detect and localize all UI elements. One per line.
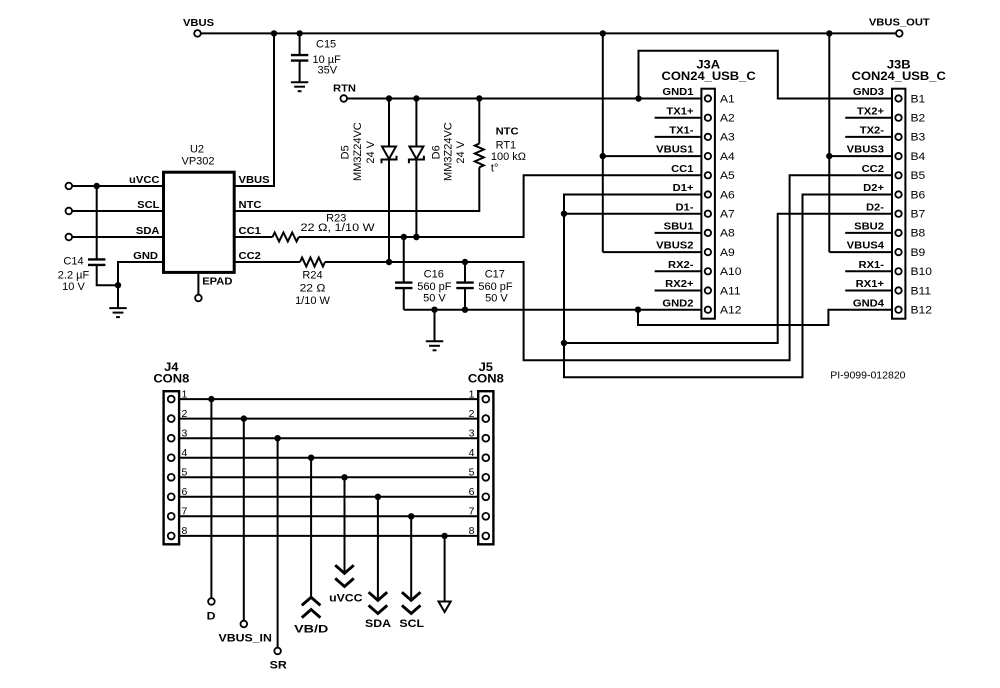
pin B1 [895,95,901,101]
wire EPAD [197,272,199,294]
pin B11 [895,287,901,293]
svg-text:NTC: NTC [239,200,262,211]
svg-text:D2-: D2- [866,202,885,213]
wire D1- to A7 [564,213,701,215]
svg-text:B1: B1 [911,94,926,105]
terminal uVCC input [66,183,73,190]
wire VBUS1 to A4 [603,155,702,157]
zener diode D6 [409,147,424,164]
junction RTN / GND1 link [635,95,641,101]
svg-text:B12: B12 [911,305,933,316]
wire VBUS3 to B4 [829,155,892,157]
pin J4-7 [168,513,175,520]
pin J4-1 [168,396,175,403]
connector J4 [164,391,180,544]
terminal SCL input [66,208,73,215]
junction top rail / VBUS3-4 [826,30,832,36]
wire U2 CC2 to R24 [234,261,300,263]
svg-text:A1: A1 [720,94,735,105]
pin J4-3 [168,435,175,442]
wire U2 GND to ground [118,262,164,308]
ground U2 [109,308,126,317]
wire tap SR [277,438,279,648]
svg-text:10 V: 10 V [62,281,85,293]
pin A10 [705,268,711,274]
junction row 4 tap [308,455,314,461]
wire R23 to J3A CC1/A5 [299,175,702,237]
junction GND2 / GND4 link [635,307,641,313]
svg-text:B7: B7 [911,209,926,220]
svg-text:A6: A6 [720,190,735,201]
junction row 1 tap [208,396,214,402]
wire tap D [210,399,212,598]
wire VBUS4 to B9 [829,251,892,253]
junction row 6 tap [375,494,381,500]
svg-text:TX1+: TX1+ [666,106,693,117]
svg-text:SDA: SDA [136,226,160,237]
svg-text:SDA: SDA [365,618,392,630]
svg-text:22 Ω, 1/10 W: 22 Ω, 1/10 W [300,221,375,234]
terminal D [208,598,215,605]
svg-text:RX1+: RX1+ [856,279,884,290]
pin B2 [895,115,901,121]
svg-text:560 pF: 560 pF [417,281,452,293]
wire stub B3 [845,136,892,138]
svg-text:A11: A11 [720,286,741,297]
svg-text:VBUS_OUT: VBUS_OUT [869,17,930,28]
svg-text:GND3: GND3 [853,87,884,98]
svg-text:35V: 35V [318,64,338,76]
off-page connector VB/D [302,597,321,617]
svg-text:CC1: CC1 [239,226,261,237]
pin A11 [705,287,711,293]
pin A3 [705,134,711,140]
junction row 7 tap [408,513,414,519]
off-page connector SCL [402,592,421,613]
svg-text:VBUS: VBUS [183,18,214,29]
pin A2 [705,115,711,121]
wire VBUS1/VBUS2 vertical [602,33,604,252]
wire VBUS2 to A9 [603,251,702,253]
pin B8 [895,230,901,236]
connector J3B [892,89,905,319]
wire U2 CC1 to R23 [234,236,272,238]
connector J5 [478,391,493,544]
pin J5-1 [482,396,489,403]
wire GND2 to GND4/B12 [638,310,892,325]
zener diode D5 [382,147,397,164]
junction RTN / RT1 [476,95,482,101]
ground C15 [291,82,308,91]
off-page connector SDA [369,592,388,613]
wire C14 top [96,186,98,259]
wire C14 bottom [97,265,118,285]
wire stub A2 [655,117,702,119]
svg-text:B3: B3 [911,132,926,143]
wire J4-J5 row 8 [179,535,478,537]
svg-text:uVCC: uVCC [329,592,363,604]
capacitor C14 [88,259,105,265]
svg-text:uVCC: uVCC [129,175,160,186]
svg-text:CC2: CC2 [239,251,261,262]
junction D1- [561,211,567,217]
wire J4-J5 row 2 [179,418,478,420]
wire VBUS rail [201,32,896,34]
wire stub B10 [845,270,892,272]
svg-text:A5: A5 [720,171,735,182]
svg-text:VBUS4: VBUS4 [847,240,884,251]
pin B4 [895,153,901,159]
wire J4-J5 row 5 [179,476,478,478]
svg-text:VBUS3: VBUS3 [847,144,884,155]
pin A12 [705,307,711,313]
wire J4-J5 row 6 [179,496,478,498]
wire tap VBUS_IN [243,419,245,621]
capacitor C15 [291,55,308,61]
wire GND1 to GND3/B1 [639,51,893,99]
wire VBUS3/VBUS4 vertical [828,33,830,252]
wire ground tap [434,310,436,342]
op-amp U2 VP302 [164,172,235,272]
junction top rail / C15 [296,30,302,36]
junction D6 / CC1 [413,234,419,240]
svg-text:TX1-: TX1- [669,125,694,136]
pin B5 [895,172,901,178]
off-page connector uVCC [335,565,354,586]
junction C17 bottom [462,307,468,313]
pin B12 [895,307,901,313]
svg-text:VB/D: VB/D [294,622,328,635]
junction CC2 / C17 [462,259,468,265]
svg-text:GND2: GND2 [662,298,693,309]
junction top rail / VBUS1-2 [600,30,606,36]
wire GND2 line (C16/C17 to A12) [404,309,702,311]
pin J5-5 [482,474,489,481]
wire C16 top [403,237,405,283]
junction CC1 / C16 [401,234,407,240]
pin A4 [705,153,711,159]
wire D1+ A6 to D2+ B6 [564,195,892,378]
wire tap uVCC [344,477,346,573]
terminal VBUS [194,30,201,37]
wire uVCC input [72,185,163,187]
svg-text:C15: C15 [316,39,336,51]
svg-text:SR: SR [270,659,288,671]
pin B3 [895,134,901,140]
svg-text:D6: D6 [430,145,442,159]
svg-text:MM3Z24VC: MM3Z24VC [352,122,364,181]
pin B9 [895,249,901,255]
wire C16 bottom [403,288,405,310]
junction row 2 tap [241,415,247,421]
wire stub B2 [845,117,892,119]
pin J5-7 [482,513,489,520]
wire RT1 top [478,99,480,144]
wire J4-J5 row 7 [179,515,478,517]
wire stub A8 [655,232,702,234]
junction VBUS3 [826,153,832,159]
svg-text:VBUS_IN: VBUS_IN [219,632,272,644]
pin J5-2 [482,415,489,422]
wire D net to D2-/B7 [564,214,892,343]
pin A1 [705,95,711,101]
pin J4-8 [168,533,175,540]
ground C16/C17 [426,341,443,350]
wire D6 anode [415,99,417,147]
wire J4-J5 row 1 [179,398,478,400]
wire tap SDA [377,497,379,601]
svg-text:CON8: CON8 [468,372,504,385]
terminal SDA input [66,234,73,241]
svg-text:B9: B9 [911,247,926,258]
pin J5-3 [482,435,489,442]
capacitor C17 [456,283,473,289]
junction row 3 tap [274,435,280,441]
svg-text:C16: C16 [424,268,444,280]
svg-text:EPAD: EPAD [202,276,233,287]
svg-text:B5: B5 [911,171,926,182]
svg-text:A10: A10 [720,267,742,278]
wire stub A3 [655,136,702,138]
pin B7 [895,211,901,217]
svg-text:PI-9099-012820: PI-9099-012820 [830,370,905,382]
junction row 5 tap [341,474,347,480]
junction RTN / D6 [413,95,419,101]
svg-text:C14: C14 [63,256,83,268]
junction D net [561,340,567,346]
svg-text:SBU1: SBU1 [664,221,694,232]
svg-text:D2+: D2+ [863,183,884,194]
svg-text:A7: A7 [720,209,735,220]
wire D6 cathode to CC1 [415,160,417,237]
svg-text:U2: U2 [190,144,204,156]
svg-text:B11: B11 [911,286,932,297]
svg-text:B6: B6 [911,190,926,201]
svg-text:TX2+: TX2+ [857,106,884,117]
wire tap row 8 ground arrow [444,536,446,602]
svg-text:MM3Z24VC: MM3Z24VC [443,122,455,181]
svg-text:24 V: 24 V [365,140,377,163]
pin J4-5 [168,474,175,481]
svg-text:CC2: CC2 [862,163,884,174]
svg-text:GND: GND [133,251,158,262]
wire tap SCL [410,516,412,600]
junction row 8 tap [441,533,447,539]
svg-text:CON24_USB_C: CON24_USB_C [852,70,946,83]
svg-text:VBUS: VBUS [239,175,270,186]
svg-text:D: D [207,610,216,622]
connector J3A [701,89,715,319]
wire SCL input [72,210,163,212]
svg-text:1/10 W: 1/10 W [295,295,330,307]
wire C15 bottom [299,61,301,83]
svg-text:CON24_USB_C: CON24_USB_C [661,70,755,83]
svg-text:D1+: D1+ [673,183,694,194]
wire J4-J5 row 3 [179,437,478,439]
svg-text:A9: A9 [720,247,735,258]
svg-text:VBUS1: VBUS1 [656,144,693,155]
svg-text:A3: A3 [720,132,735,143]
svg-text:SCL: SCL [137,200,160,211]
junction D5 / CC2 [386,259,392,265]
svg-text:A8: A8 [720,228,735,239]
pin A5 [705,172,711,178]
junction uVCC / C14 [94,183,100,189]
ground arrow [439,602,451,613]
junction top rail / U2 VBUS [271,30,277,36]
terminal VBUS_OUT [896,30,903,37]
pin J5-4 [482,454,489,461]
svg-text:C17: C17 [485,268,505,280]
terminal SR [274,648,281,655]
svg-text:GND4: GND4 [853,298,884,309]
pin J5-6 [482,493,489,500]
svg-text:CC1: CC1 [671,163,693,174]
wire stub B8 [845,232,892,234]
svg-text:SCL: SCL [399,618,424,630]
svg-text:22 Ω: 22 Ω [300,283,326,294]
svg-text:R24: R24 [302,270,322,282]
wire RT1 to U2 NTC [234,167,479,211]
wire R24 to J3B CC2/B5 [325,175,892,360]
pin J4-4 [168,454,175,461]
pin A7 [705,211,711,217]
svg-text:SBU2: SBU2 [854,221,884,232]
svg-text:24 V: 24 V [455,140,467,163]
svg-text:GND1: GND1 [662,87,693,98]
pin A8 [705,230,711,236]
svg-text:2.2 µF: 2.2 µF [58,269,90,281]
junction RTN / D5 [386,95,392,101]
wire stub B11 [845,290,892,292]
capacitor C16 [395,283,412,289]
wire J4-J5 row 4 [179,457,478,459]
wire U2 VBUS pin to top rail [234,33,274,186]
terminal VBUS_IN [241,621,248,628]
svg-text:RX1-: RX1- [859,259,885,270]
wire tap VB/D [310,458,312,598]
svg-text:50 V: 50 V [485,292,508,304]
wire stub A10 [655,270,702,272]
thermistor RT1 [475,144,484,168]
svg-text:B4: B4 [911,151,926,162]
pin A9 [705,249,711,255]
svg-text:B8: B8 [911,228,926,239]
junction VBUS1 [600,153,606,159]
terminal RTN [340,95,347,102]
svg-text:RTN: RTN [333,83,356,94]
pin B10 [895,268,901,274]
svg-text:D5: D5 [340,145,352,159]
wire D5 anode [388,99,390,147]
wire C17 top [464,262,466,283]
svg-text:t°: t° [491,163,498,175]
svg-text:D1-: D1- [675,202,694,213]
svg-text:VBUS2: VBUS2 [656,240,693,251]
svg-text:100 kΩ: 100 kΩ [491,151,526,163]
svg-text:50 V: 50 V [423,292,446,304]
svg-text:CON8: CON8 [153,372,189,385]
junction ground tap [431,307,437,313]
svg-text:VP302: VP302 [181,155,214,167]
pin A6 [705,191,711,197]
svg-text:B2: B2 [911,113,926,124]
svg-text:TX2-: TX2- [860,125,885,136]
resistor R23 [273,233,299,242]
pin J4-6 [168,493,175,500]
wire stub A11 [655,290,702,292]
wire C15 top [299,33,301,55]
svg-text:RX2+: RX2+ [665,279,693,290]
svg-text:A2: A2 [720,113,735,124]
svg-text:A4: A4 [720,151,735,162]
wire RTN rail to A1 [347,98,701,100]
pin J5-8 [482,533,489,540]
pin J4-2 [168,415,175,422]
resistor R24 [300,258,325,267]
wire D5 cathode to CC2 [388,160,390,262]
wire SDA input [72,236,163,238]
svg-text:RX2-: RX2- [668,259,694,270]
svg-text:A12: A12 [720,305,742,316]
svg-text:NTC: NTC [496,126,519,137]
svg-text:B10: B10 [911,267,933,278]
svg-text:RT1: RT1 [496,140,517,152]
wire C17 bottom [464,288,466,310]
pin B6 [895,191,901,197]
terminal EPAD [195,295,202,302]
svg-text:560 pF: 560 pF [478,281,513,293]
junction GND / C14 [115,282,121,288]
